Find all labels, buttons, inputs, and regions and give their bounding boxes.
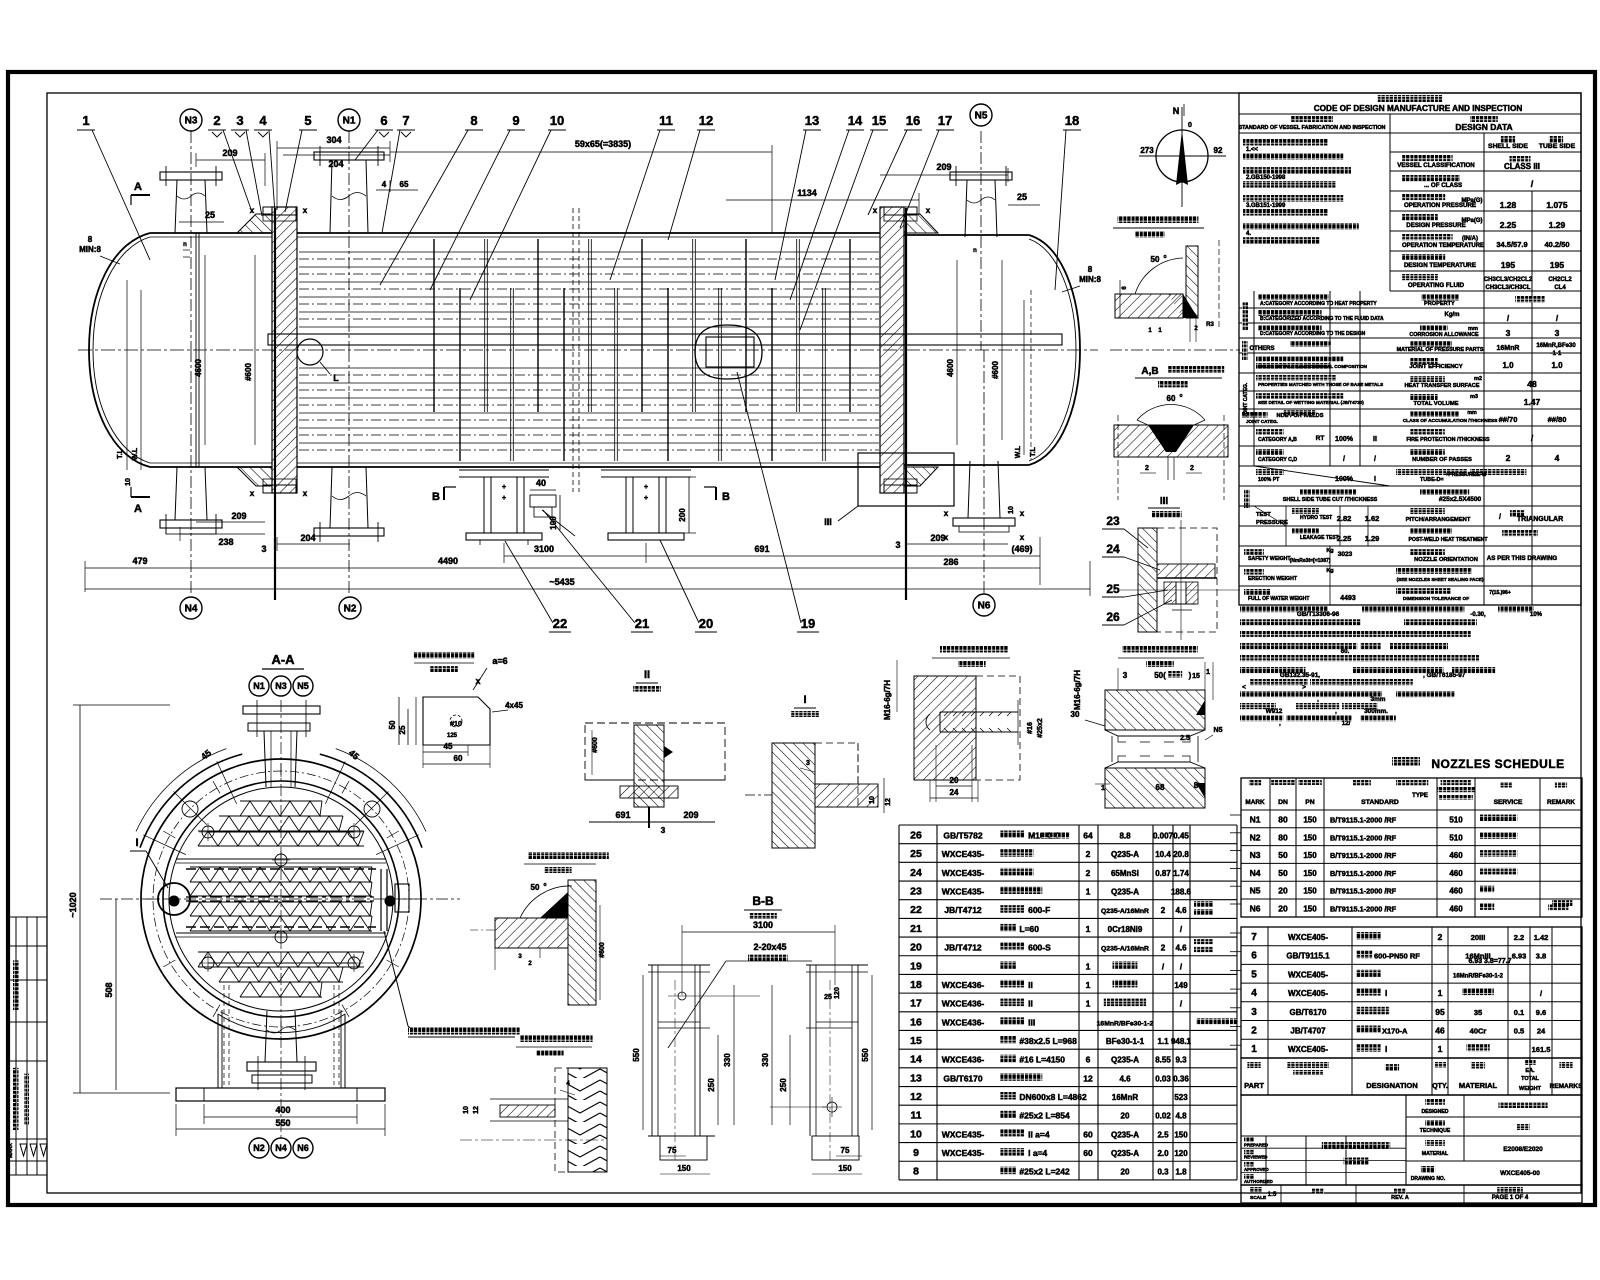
dim 4600 mid-right <box>956 260 958 445</box>
svg-text:150: 150 <box>838 1164 852 1173</box>
svg-text:PROPERTIES MATCHED WITH THOSE: PROPERTIES MATCHED WITH THOSE OF BASE ME… <box>1258 382 1383 387</box>
svg-text:JB/T4707: JB/T4707 <box>1290 1027 1326 1036</box>
svg-text:10: 10 <box>463 1106 470 1114</box>
title block bottom row <box>1241 1185 1582 1203</box>
svg-text:A,B: A,B <box>1141 366 1158 377</box>
svg-text:CLASS OF ACCUMULATION /THICKNE: CLASS OF ACCUMULATION /THICKNESS <box>1403 418 1498 424</box>
svg-text:TUBE SIDE: TUBE SIDE <box>1539 143 1576 150</box>
svg-text:#16 L=4150: #16 L=4150 <box>1019 1055 1065 1065</box>
A-A dim ~1020 vertical <box>79 705 81 1093</box>
svg-text:AS PER THIS DRAWING: AS PER THIS DRAWING <box>1487 555 1558 562</box>
A-A dim 400 <box>204 1116 357 1118</box>
svg-text:8: 8 <box>88 235 93 244</box>
svg-text:x: x <box>475 676 480 686</box>
svg-text:B: B <box>432 491 440 503</box>
notes block <box>1240 606 1328 612</box>
svg-text:B/T9115.1-2000 /RF: B/T9115.1-2000 /RF <box>1330 887 1397 896</box>
svg-text:9: 9 <box>913 1147 919 1159</box>
svg-text:III: III <box>1028 1017 1035 1027</box>
svg-text:B/T9115.1-2000 /RF: B/T9115.1-2000 /RF <box>1330 833 1397 842</box>
svg-text:3: 3 <box>806 760 810 767</box>
right dished head <box>1029 235 1080 465</box>
svg-text:6: 6 <box>1086 1055 1091 1065</box>
A-A flange outer circle <box>141 759 421 1039</box>
svg-text:W912: W912 <box>1266 708 1283 715</box>
svg-text:N6: N6 <box>1250 904 1261 914</box>
svg-text:300mm.: 300mm. <box>1364 708 1388 715</box>
svg-text:68: 68 <box>1156 783 1165 792</box>
svg-text:mm: mm <box>1467 410 1477 416</box>
svg-text:7(15.)96+: 7(15.)96+ <box>1489 590 1511 596</box>
dim 3100 between saddles <box>504 555 646 557</box>
svg-text:ERECTION WEIGHT: ERECTION WEIGHT <box>1248 576 1298 582</box>
svg-text:MPa(G): MPa(G) <box>1462 218 1483 224</box>
svg-text:GB/T13306-96: GB/T13306-96 <box>1297 611 1340 618</box>
svg-text:2: 2 <box>1161 906 1166 915</box>
svg-text:286: 286 <box>943 557 958 567</box>
svg-text:1: 1 <box>1438 1044 1443 1054</box>
svg-text:m3: m3 <box>1470 394 1478 400</box>
svg-text:400: 400 <box>275 1105 290 1115</box>
detail D8 centerlines <box>674 980 676 1160</box>
svg-text:8: 8 <box>470 113 477 128</box>
nozzle label N6 bottom <box>973 594 995 616</box>
nozzle label N2 bottom <box>339 597 361 619</box>
svg-text:149: 149 <box>1174 981 1188 990</box>
svg-text:2.82: 2.82 <box>1337 514 1352 523</box>
svg-text:4.6: 4.6 <box>1175 944 1187 953</box>
A-A lug holes <box>182 801 198 817</box>
svg-text:WXCE435-: WXCE435- <box>942 849 985 859</box>
svg-text:x: x <box>1020 509 1025 518</box>
svg-text:MIN:8: MIN:8 <box>79 245 101 254</box>
svg-text:4.8: 4.8 <box>1175 1112 1187 1121</box>
svg-text:12: 12 <box>910 1091 922 1103</box>
row vessel class slash <box>1402 175 1460 181</box>
svg-text:2: 2 <box>1190 465 1194 472</box>
detail D5 drawing <box>1105 690 1205 730</box>
NDE row <box>1242 412 1268 418</box>
svg-text:4: 4 <box>382 180 387 189</box>
svg-text:11: 11 <box>659 113 673 128</box>
svg-text:1.29: 1.29 <box>1549 220 1566 230</box>
svg-text:460: 460 <box>1449 887 1463 896</box>
svg-text:1.42: 1.42 <box>1534 933 1549 942</box>
svg-text:>: > <box>1302 684 1306 691</box>
main view horizontal centerline <box>78 349 1098 351</box>
notes extra density <box>1404 619 1477 625</box>
dim 200 vertical <box>688 477 690 533</box>
svg-text:1134: 1134 <box>797 188 817 198</box>
svg-text:x: x <box>250 489 255 498</box>
svg-text:12: 12 <box>1083 1073 1093 1083</box>
svg-text:TOTAL VOLUME: TOTAL VOLUME <box>1413 401 1458 407</box>
dim 209 bottom-left <box>196 521 265 523</box>
svg-text:(IN/A): (IN/A) <box>1462 236 1478 242</box>
svg-text:510: 510 <box>1449 816 1463 825</box>
svg-text:DIMENSION TOLERANCE OF: DIMENSION TOLERANCE OF <box>1403 596 1469 602</box>
saddle support left (part 22) <box>459 469 549 471</box>
svg-text:QTY.: QTY. <box>1432 1083 1448 1090</box>
parts list table items 8-26 <box>899 824 1237 826</box>
svg-text:II: II <box>1028 999 1033 1009</box>
svg-text:330: 330 <box>761 1053 770 1067</box>
svg-text:o: o <box>1179 393 1182 399</box>
svg-text:WXCE435-: WXCE435- <box>942 1129 985 1139</box>
left channel flange hub top (hatched) <box>237 214 272 233</box>
svg-text:1: 1 <box>1086 961 1091 971</box>
svg-text:N5: N5 <box>975 111 988 122</box>
left flange bolting top <box>263 207 296 215</box>
dim 25 right <box>1008 204 1040 206</box>
svg-text:x: x <box>944 509 949 518</box>
A-A top nozzle flanges <box>243 706 320 714</box>
svg-text:WXCE436-: WXCE436- <box>942 999 985 1009</box>
svg-text:10: 10 <box>125 478 132 486</box>
svg-text:N4: N4 <box>1250 868 1261 878</box>
svg-text:TECHNIQUE: TECHNIQUE <box>1420 1128 1451 1134</box>
svg-text:GB/T6170: GB/T6170 <box>943 1073 982 1083</box>
left channel shell <box>150 232 272 234</box>
svg-text:2.5: 2.5 <box>1157 1130 1169 1139</box>
saddle support right (part 20) <box>601 469 691 471</box>
svg-text:188.6: 188.6 <box>1171 888 1192 897</box>
A-A tube field mid band <box>190 867 372 882</box>
svg-text:22: 22 <box>910 904 922 916</box>
svg-text:I a=4: I a=4 <box>1028 1148 1047 1158</box>
svg-text:MATERIAL: MATERIAL <box>1422 1151 1449 1157</box>
parts table header band <box>1241 1058 1582 1095</box>
svg-text:59x65(=3835): 59x65(=3835) <box>575 139 631 149</box>
svg-text:RT: RT <box>1316 435 1325 442</box>
svg-text:1.1: 1.1 <box>1157 1037 1169 1046</box>
svg-text:#25x2.5X4500: #25x2.5X4500 <box>1439 496 1482 503</box>
svg-text:1: 1 <box>1086 980 1091 990</box>
svg-text:250: 250 <box>707 1078 716 1092</box>
svg-text:20: 20 <box>699 616 713 631</box>
detail D5 tube-tubesheet title <box>1122 646 1198 653</box>
svg-text:III: III <box>1160 496 1169 507</box>
svg-text:TOTAL: TOTAL <box>1521 1076 1539 1082</box>
A-A centerlines <box>280 700 282 1140</box>
right tubesheet (hatched) <box>880 207 904 493</box>
svg-text:40.2/50: 40.2/50 <box>1544 240 1569 249</box>
svg-text:N2: N2 <box>344 604 357 615</box>
svg-text:3.GB151-1999: 3.GB151-1999 <box>1246 203 1286 209</box>
svg-text:N2: N2 <box>253 1143 265 1153</box>
detail D11 III drawing <box>1138 528 1157 632</box>
svg-text:SCALE: SCALE <box>1250 1195 1267 1201</box>
A-A saddle web arcs <box>218 1014 345 1033</box>
svg-text:195: 195 <box>1550 260 1564 270</box>
svg-text:4600: 4600 <box>946 359 955 377</box>
svg-text:SEE DETAIL OF WETTING MATERIAL: SEE DETAIL OF WETTING MATERIAL (JB/T4730… <box>1258 400 1364 405</box>
svg-text:6.93: 6.93 <box>1512 952 1527 961</box>
detail L circle on left tubesheet <box>297 339 323 365</box>
A-A top nozzle labels N1 N3 N5 <box>249 676 269 696</box>
svg-text:9.6: 9.6 <box>1536 1008 1546 1017</box>
svg-text:150: 150 <box>1174 1130 1188 1139</box>
svg-text:16: 16 <box>906 113 920 128</box>
svg-text:N2: N2 <box>1250 832 1261 842</box>
dim phi600 left <box>254 255 256 445</box>
svg-text:3: 3 <box>1506 328 1511 338</box>
svg-text:120: 120 <box>1174 1149 1188 1158</box>
svg-text:#25x2 L=854: #25x2 L=854 <box>1019 1111 1070 1121</box>
svg-text:20.8: 20.8 <box>1173 850 1189 859</box>
svg-text:100: 100 <box>549 516 558 530</box>
dim 1134 <box>726 199 919 201</box>
svg-text:4: 4 <box>1555 453 1560 463</box>
svg-text:16MnR,BFe30: 16MnR,BFe30 <box>1536 343 1576 349</box>
svg-text:REMARK: REMARK <box>1547 799 1575 806</box>
svg-text:16MnR/BFe30-1-2: 16MnR/BFe30-1-2 <box>1097 1020 1154 1027</box>
svg-text:W.L: W.L <box>132 447 139 460</box>
svg-text:POST-WELD HEAT TREATMENT: POST-WELD HEAT TREATMENT <box>1408 537 1488 543</box>
svg-text:HEAT TRANSFER SURFACE: HEAT TRANSFER SURFACE <box>1404 383 1479 389</box>
dim 25 left <box>179 221 224 223</box>
svg-text:3: 3 <box>661 826 666 835</box>
nozzle N2 bottom <box>348 350 350 596</box>
svg-text:9.3: 9.3 <box>1175 1056 1187 1065</box>
dim 204 bottom <box>277 543 350 545</box>
svg-text:2: 2 <box>1251 1026 1257 1037</box>
svg-text:100%: 100% <box>1335 436 1354 443</box>
svg-text:15: 15 <box>872 113 886 128</box>
nozzles schedule title <box>1392 757 1420 766</box>
svg-text:JB/T4712: JB/T4712 <box>944 905 982 915</box>
section mark B left <box>443 487 445 500</box>
detail D9 nozzle weld title <box>1118 216 1199 223</box>
svg-text:1:5: 1:5 <box>1268 1192 1277 1198</box>
svg-text:~5435: ~5435 <box>549 577 574 587</box>
svg-text:R3: R3 <box>1206 322 1214 328</box>
svg-text:Q235-A: Q235-A <box>1111 1149 1139 1158</box>
svg-text:4: 4 <box>259 113 267 128</box>
svg-text:NOZZLES SCHEDULE: NOZZLES SCHEDULE <box>1431 757 1564 771</box>
category A RT row <box>1256 429 1284 435</box>
right flange bolting top <box>884 207 917 215</box>
svg-text:#600: #600 <box>592 737 599 753</box>
svg-text:75: 75 <box>841 1146 850 1155</box>
A-A saddle hidden lines <box>223 985 225 1085</box>
svg-text:+PRESSURIZE W: +PRESSURIZE W <box>1446 472 1487 478</box>
svg-text:0.1: 0.1 <box>1514 1008 1524 1017</box>
svg-text:691: 691 <box>615 810 630 820</box>
svg-text:PROPERTY: PROPERTY <box>1424 301 1455 307</box>
A-A dim 550 <box>176 1128 385 1130</box>
svg-text:/: / <box>1499 514 1501 521</box>
svg-text:1.47: 1.47 <box>1524 397 1541 407</box>
svg-text:MATERIAL OF PRESSURE PARTS: MATERIAL OF PRESSURE PARTS <box>1397 347 1484 353</box>
left head weld seam <box>195 233 197 467</box>
svg-text:460: 460 <box>1449 905 1463 914</box>
svg-text:35: 35 <box>1474 1008 1482 1017</box>
svg-text:13: 13 <box>910 1072 922 1084</box>
svg-text:460: 460 <box>1449 851 1463 860</box>
svg-text:20: 20 <box>1278 904 1288 914</box>
svg-text:10.4: 10.4 <box>1155 850 1171 859</box>
left tubesheet (hatched) <box>272 207 297 493</box>
svg-text:A: A <box>134 503 142 515</box>
A-A dim 508 vertical <box>115 899 117 1090</box>
svg-text:2: 2 <box>213 113 220 128</box>
svg-text:SERVICE: SERVICE <box>1494 799 1523 806</box>
svg-text:3100: 3100 <box>753 920 773 930</box>
svg-text:24: 24 <box>950 788 959 797</box>
svg-text:M16-6g/7H: M16-6g/7H <box>883 680 892 720</box>
detail D1 drawing <box>423 697 490 745</box>
svg-text:26: 26 <box>1106 610 1120 624</box>
svg-text:2.25: 2.25 <box>1500 220 1517 230</box>
svg-text:24: 24 <box>910 867 922 879</box>
svg-text:209: 209 <box>936 162 951 172</box>
svg-text:MARK: MARK <box>8 1143 14 1158</box>
svg-text:B/T9115.1-2000 /RF: B/T9115.1-2000 /RF <box>1330 816 1397 825</box>
svg-text:4.: 4. <box>1246 231 1251 237</box>
A-A bottom nozzle <box>265 1011 267 1062</box>
svg-text:2: 2 <box>1438 932 1443 942</box>
title block frame <box>1241 1095 1582 1185</box>
svg-text:B: B <box>722 491 730 503</box>
svg-text:20: 20 <box>1121 1112 1130 1121</box>
svg-text:60: 60 <box>1083 1129 1093 1139</box>
detail D2 drawing <box>495 918 568 948</box>
svg-text:1: 1 <box>1438 988 1443 998</box>
svg-text:4.6: 4.6 <box>1175 906 1187 915</box>
svg-text:#600: #600 <box>991 361 1000 379</box>
svg-text:SHELL SIDE: SHELL SIDE <box>1488 143 1528 150</box>
svg-text:TYPE: TYPE <box>1412 793 1428 799</box>
svg-text:24: 24 <box>1106 542 1120 556</box>
svg-text:JOINT CATEG.: JOINT CATEG. <box>1246 419 1278 424</box>
svg-text:Q235-A/16MnR: Q235-A/16MnR <box>1101 908 1149 915</box>
svg-text:T.L: T.L <box>117 448 124 458</box>
svg-text:1: 1 <box>1086 999 1091 1009</box>
right channel flange hub top (hatched) <box>904 214 938 233</box>
nozzles schedule header text <box>1249 780 1261 786</box>
svg-text:45: 45 <box>444 742 453 751</box>
svg-text:1: 1 <box>1101 785 1105 792</box>
welding rows <box>1242 341 1248 360</box>
tube bundle rows <box>299 251 879 253</box>
svg-text:FILLER METALS HAVE CHEMICAL CO: FILLER METALS HAVE CHEMICAL COMPOSITION <box>1258 364 1368 369</box>
detail D1 tie-rod plate title <box>414 652 474 659</box>
A-A shell circles <box>163 781 399 1017</box>
design data header <box>1378 95 1442 102</box>
svg-text:CH3CL3/CH2CL2: CH3CL3/CH2CL2 <box>1484 277 1533 283</box>
svg-text:0Cr18Ni9: 0Cr18Ni9 <box>1108 925 1143 934</box>
design data middle band (welder/category rows) <box>1239 307 1581 309</box>
svg-text:#16: #16 <box>1027 722 1034 734</box>
svg-text:Q235-A: Q235-A <box>1111 850 1139 859</box>
nozzle N4 bottom <box>190 350 192 596</box>
A-A tick marks on circles <box>403 898 417 900</box>
svg-text:D:CATEGORY ACCORDING TO THE DE: D:CATEGORY ACCORDING TO THE DESIGN <box>1260 331 1366 337</box>
svg-text:CH3CL3/CH3CL: CH3CL3/CH3CL <box>1485 285 1530 291</box>
revision triangles <box>20 1144 27 1156</box>
dim 209 top-right <box>880 174 1008 176</box>
dim 100 vertical <box>559 495 561 530</box>
svg-text:17: 17 <box>938 113 952 128</box>
svg-text:STANDARD OF VESSEL FABRICATION: STANDARD OF VESSEL FABRICATION AND INSPE… <box>1239 125 1386 131</box>
detail 19 callout blob <box>695 325 762 379</box>
svg-text:14: 14 <box>848 113 863 128</box>
svg-text:25: 25 <box>910 848 922 860</box>
svg-text:209: 209 <box>683 810 698 820</box>
svg-text:209: 209 <box>231 511 246 521</box>
A-A slide strip right <box>380 869 382 931</box>
svg-text:x: x <box>926 206 931 215</box>
svg-text:7: 7 <box>1251 932 1257 943</box>
svg-text:10: 10 <box>550 113 564 128</box>
svg-text:B-B: B-B <box>752 894 774 908</box>
svg-text:510: 510 <box>1449 833 1463 842</box>
svg-text:II: II <box>644 669 650 681</box>
svg-text:304: 304 <box>326 135 341 145</box>
svg-text:Q235-A: Q235-A <box>1111 1130 1139 1139</box>
svg-text:#25x2: #25x2 <box>1037 718 1044 738</box>
svg-text:A-A: A-A <box>271 652 295 667</box>
svg-text:(NmRe3t=[=1087): (NmRe3t=[=1087) <box>1290 558 1331 564</box>
svg-text:8: 8 <box>913 1166 919 1178</box>
svg-text:24: 24 <box>1537 1027 1546 1036</box>
svg-text:161.5: 161.5 <box>1532 1045 1551 1054</box>
svg-text:1.075: 1.075 <box>1546 200 1568 210</box>
svg-text:3100: 3100 <box>534 544 554 554</box>
svg-text:II: II <box>1028 980 1033 990</box>
nozzle N6 bottom <box>983 350 985 596</box>
52f right margin ticks <box>1230 814 1241 816</box>
svg-text:600-PN50 RF: 600-PN50 RF <box>1374 952 1420 961</box>
design data code list (left cell) <box>1243 139 1328 146</box>
svg-text:1.0: 1.0 <box>1502 361 1514 370</box>
svg-text:2.2: 2.2 <box>1514 933 1524 942</box>
right channel shell <box>904 234 1029 236</box>
parts table items 1-7 <box>1241 927 1582 1058</box>
svg-text:50: 50 <box>1278 868 1288 878</box>
svg-text:3: 3 <box>895 540 900 550</box>
svg-text:80: 80 <box>1278 832 1288 842</box>
svg-text:1.62: 1.62 <box>1365 514 1380 523</box>
svg-text:238: 238 <box>218 537 233 547</box>
svg-text:3: 3 <box>1555 328 1560 338</box>
svg-text:1: 1 <box>1206 669 1210 676</box>
svg-text:5: 5 <box>1251 969 1257 980</box>
svg-text:n: n <box>973 248 977 254</box>
svg-text:125: 125 <box>447 733 458 739</box>
svg-text:N5: N5 <box>1250 886 1261 896</box>
svg-text:65MnSi: 65MnSi <box>1111 869 1139 878</box>
vessel left dished head <box>89 233 150 467</box>
svg-text:WXCE436-: WXCE436- <box>942 980 985 990</box>
design data table frame <box>1239 93 1581 605</box>
svg-text:SHELL SIDE TUBE CUT /THICKNESS: SHELL SIDE TUBE CUT /THICKNESS <box>1283 497 1378 503</box>
svg-text:12: 12 <box>885 798 892 806</box>
A-A baffle chord lines <box>176 858 386 860</box>
svg-text:STANDARD: STANDARD <box>1361 799 1399 806</box>
svg-text:150: 150 <box>1303 869 1317 878</box>
svg-text:WXCE435-: WXCE435- <box>942 868 985 878</box>
svg-text:19: 19 <box>910 960 922 972</box>
svg-text:I: I <box>803 694 806 706</box>
svg-text:DESIGN PRESSURE: DESIGN PRESSURE <box>1406 222 1465 229</box>
svg-text:N: N <box>1173 106 1180 116</box>
dim 209 top-left <box>196 159 265 161</box>
A-A 45deg radial lines <box>143 835 186 855</box>
svg-text:50: 50 <box>388 720 397 729</box>
svg-text:40: 40 <box>536 478 546 488</box>
